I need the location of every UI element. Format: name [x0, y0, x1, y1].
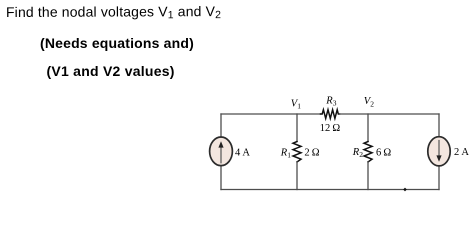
- svg-text:V1: V1: [291, 99, 301, 111]
- wire R1 branch lower: [296, 162, 298, 190]
- wire top-right segment (node V2 top rail): [340, 113, 440, 115]
- wire right branch lower: [438, 166, 440, 190]
- wire left branch upper: [220, 114, 222, 137]
- current source I1 circle: [210, 137, 233, 166]
- wire top-left segment (node V1 top rail): [221, 113, 321, 115]
- resistor R2 (zigzag, vertical): [364, 142, 372, 162]
- svg-text:4 A: 4 A: [235, 147, 250, 158]
- svg-text:R1: R1: [280, 147, 291, 159]
- svg-text:2 A: 2 A: [454, 147, 469, 158]
- title line 3: [47, 64, 175, 78]
- wire left branch lower: [220, 166, 222, 190]
- wire R1 branch upper: [296, 114, 298, 142]
- svg-text:V2: V2: [364, 96, 374, 108]
- current source I2 circle: [428, 137, 450, 166]
- resistor R1 (zigzag, vertical): [293, 142, 301, 162]
- svg-text:12 Ω: 12 Ω: [320, 123, 341, 134]
- current source I1 arrow (up): [218, 141, 223, 163]
- wire R2 branch lower: [367, 162, 369, 190]
- svg-text:6 Ω: 6 Ω: [376, 147, 391, 158]
- resistor R3 (zigzag, in top rail): [321, 110, 340, 119]
- junction dot on bottom rail: [403, 188, 407, 192]
- wire R2 branch upper: [367, 114, 369, 142]
- wire bottom rail (ground net): [221, 189, 439, 191]
- current source I2 arrow (down): [436, 141, 441, 162]
- title line 1: [5, 4, 220, 21]
- svg-text:2 Ω: 2 Ω: [304, 147, 319, 158]
- title line 2: [40, 36, 194, 50]
- wire right branch upper: [438, 114, 440, 137]
- svg-text:R2: R2: [352, 147, 363, 159]
- svg-text:R3: R3: [325, 96, 336, 108]
